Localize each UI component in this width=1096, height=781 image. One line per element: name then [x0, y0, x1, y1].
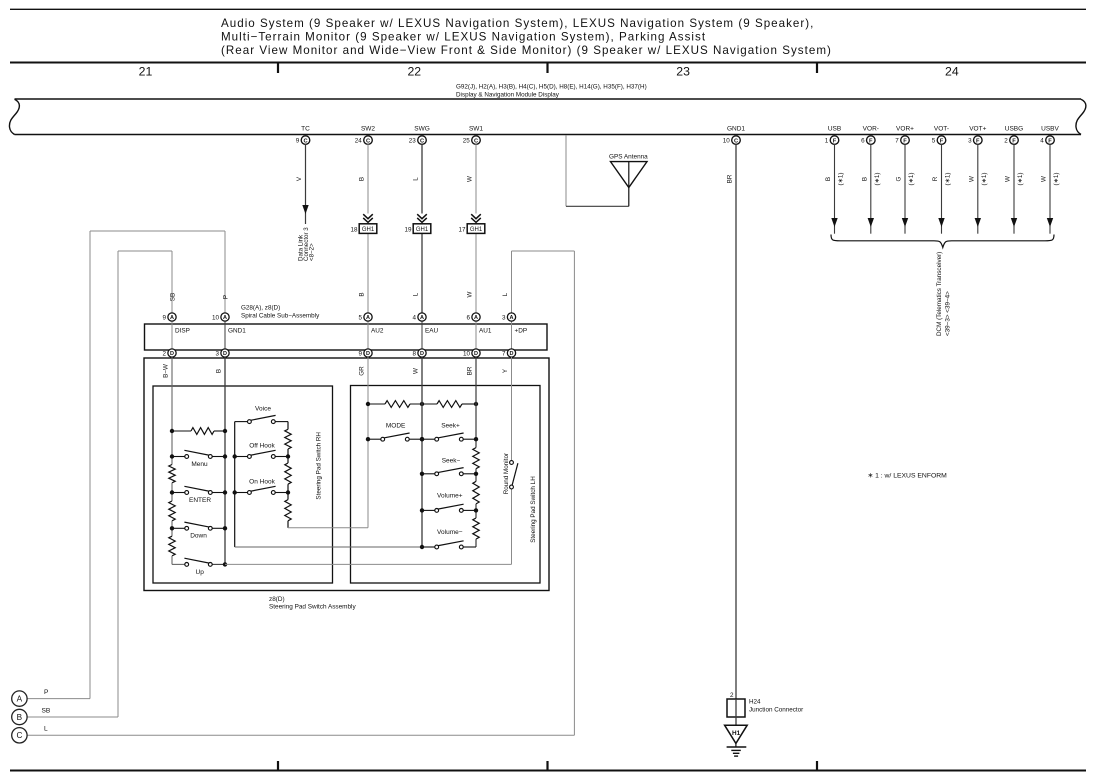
svg-text:TC: TC: [301, 126, 310, 133]
svg-text:D: D: [170, 351, 174, 357]
svg-text:1: 1: [825, 137, 829, 144]
svg-text:5: 5: [932, 137, 936, 144]
svg-text:G28(A), z8(D): G28(A), z8(D): [241, 305, 280, 312]
svg-text:B: B: [825, 177, 832, 181]
svg-text:7: 7: [502, 351, 506, 358]
svg-text:7: 7: [895, 137, 899, 144]
svg-text:(∗1): (∗1): [981, 173, 988, 186]
svg-text:Volume−: Volume−: [437, 529, 463, 536]
svg-text:P: P: [44, 689, 49, 696]
svg-text:C: C: [303, 138, 307, 144]
svg-text:18: 18: [350, 226, 358, 233]
svg-text:6: 6: [861, 137, 865, 144]
svg-text:9: 9: [162, 315, 166, 322]
svg-text:VOT-: VOT-: [934, 126, 949, 133]
svg-text:9: 9: [296, 137, 300, 144]
svg-text:A: A: [17, 695, 23, 704]
svg-text:B: B: [861, 177, 868, 181]
svg-text:L: L: [413, 292, 420, 296]
svg-text:L: L: [44, 726, 48, 733]
svg-text:H24: H24: [749, 699, 761, 706]
svg-text:B−W: B−W: [163, 364, 170, 378]
svg-text:L: L: [413, 177, 420, 181]
svg-text:5: 5: [358, 315, 362, 322]
svg-text:Off Hook: Off Hook: [249, 443, 275, 450]
svg-text:C: C: [366, 138, 370, 144]
svg-text:4: 4: [412, 315, 416, 322]
svg-text:6: 6: [466, 315, 470, 322]
svg-text:F: F: [903, 138, 907, 144]
svg-text:Steering Pad Switch Assembly: Steering Pad Switch Assembly: [269, 604, 356, 611]
svg-text:23: 23: [409, 137, 417, 144]
svg-text:W: W: [1005, 176, 1012, 182]
svg-text:VOR-: VOR-: [863, 126, 879, 133]
svg-text:23: 23: [676, 65, 690, 79]
svg-text:F: F: [940, 138, 944, 144]
svg-text:SB: SB: [42, 707, 51, 714]
svg-text:EAU: EAU: [425, 328, 439, 335]
svg-text:B: B: [17, 713, 23, 722]
svg-text:19: 19: [404, 226, 412, 233]
svg-text:GH1: GH1: [470, 227, 483, 233]
svg-text:G92(J), H2(A), H3(B), H4(C), H: G92(J), H2(A), H3(B), H4(C), H5(D), H8(E…: [456, 84, 647, 91]
svg-text:<39−3> <39−4>: <39−3> <39−4>: [945, 291, 952, 336]
svg-text:z8(D): z8(D): [269, 596, 285, 603]
svg-text:SW1: SW1: [469, 126, 483, 133]
svg-text:A: A: [223, 315, 227, 321]
svg-text:A: A: [420, 315, 424, 321]
svg-text:∗ 1 : w/ LEXUS ENFORM: ∗ 1 : w/ LEXUS ENFORM: [868, 473, 948, 480]
svg-text:B: B: [359, 177, 366, 181]
svg-text:D: D: [223, 351, 227, 357]
svg-text:GR: GR: [359, 366, 366, 376]
svg-text:F: F: [1012, 138, 1016, 144]
svg-text:GND1: GND1: [727, 126, 745, 133]
svg-text:3: 3: [502, 315, 506, 322]
svg-text:AU2: AU2: [371, 328, 384, 335]
svg-text:ENTER: ENTER: [189, 497, 211, 504]
svg-text:24: 24: [945, 65, 959, 79]
svg-text:DCM (Telematics Transceiver): DCM (Telematics Transceiver): [936, 252, 943, 336]
svg-text:G: G: [896, 176, 903, 181]
svg-text:+DP: +DP: [515, 328, 528, 335]
svg-text:10: 10: [212, 315, 220, 322]
svg-text:GH1: GH1: [362, 227, 375, 233]
svg-text:BR: BR: [727, 174, 734, 183]
svg-text:D: D: [420, 351, 424, 357]
svg-text:C: C: [16, 731, 22, 740]
svg-text:C: C: [734, 138, 738, 144]
svg-text:USBV: USBV: [1041, 126, 1059, 133]
svg-text:2: 2: [730, 692, 734, 699]
svg-text:GND1: GND1: [228, 328, 246, 335]
svg-text:USB: USB: [828, 126, 841, 133]
svg-text:D: D: [366, 351, 370, 357]
svg-text:USBG: USBG: [1005, 126, 1023, 133]
svg-text:Spiral Cable Sub−Assembly: Spiral Cable Sub−Assembly: [241, 313, 320, 320]
svg-text:Volume+: Volume+: [437, 492, 463, 499]
svg-text:9: 9: [358, 351, 362, 358]
svg-text:4: 4: [1040, 137, 1044, 144]
svg-text:Junction Connector: Junction Connector: [749, 706, 803, 713]
svg-text:R: R: [932, 176, 939, 181]
svg-text:Steering Pad Switch RH: Steering Pad Switch RH: [316, 432, 323, 500]
svg-text:(Rear View Monitor and Wide−Vi: (Rear View Monitor and Wide−View Front &…: [221, 44, 832, 57]
svg-text:Up: Up: [196, 569, 205, 576]
svg-text:D: D: [510, 351, 514, 357]
svg-text:W: W: [1041, 176, 1048, 182]
svg-text:Audio System (9 Speaker w/ LEX: Audio System (9 Speaker w/ LEXUS Navigat…: [221, 17, 814, 30]
svg-text:C: C: [420, 138, 424, 144]
svg-text:DISP: DISP: [175, 328, 190, 335]
svg-text:Seek−: Seek−: [442, 457, 461, 464]
svg-text:MODE: MODE: [386, 423, 406, 430]
svg-text:(∗1): (∗1): [874, 173, 881, 186]
svg-text:H1: H1: [732, 730, 741, 737]
svg-text:C: C: [474, 138, 478, 144]
svg-text:24: 24: [355, 137, 363, 144]
svg-text:Round Monitor: Round Monitor: [503, 453, 510, 494]
svg-text:A: A: [474, 315, 478, 321]
svg-text:L: L: [502, 292, 509, 296]
svg-text:GH1: GH1: [416, 227, 429, 233]
svg-text:25: 25: [463, 137, 471, 144]
svg-text:<8−2>: <8−2>: [309, 243, 316, 261]
svg-text:(∗1): (∗1): [1017, 173, 1024, 186]
svg-text:F: F: [1048, 138, 1052, 144]
svg-text:Voice: Voice: [255, 405, 271, 412]
svg-text:A: A: [366, 315, 370, 321]
svg-text:8: 8: [412, 351, 416, 358]
svg-text:W: W: [413, 368, 420, 374]
svg-text:(∗1): (∗1): [945, 173, 952, 186]
svg-text:BR: BR: [467, 366, 474, 375]
svg-text:2: 2: [1004, 137, 1008, 144]
svg-text:VOT+: VOT+: [969, 126, 986, 133]
svg-text:B: B: [359, 292, 366, 296]
svg-text:10: 10: [723, 137, 731, 144]
svg-text:AU1: AU1: [479, 328, 492, 335]
svg-text:W: W: [467, 176, 474, 182]
svg-text:Steering Pad Switch LH: Steering Pad Switch LH: [530, 476, 537, 543]
svg-text:GPS Antenna: GPS Antenna: [609, 153, 648, 160]
svg-text:F: F: [833, 138, 837, 144]
svg-text:Multi−Terrain Monitor (9 Speak: Multi−Terrain Monitor (9 Speaker w/ LEXU…: [221, 30, 706, 43]
svg-text:SWG: SWG: [414, 126, 430, 133]
svg-text:On Hook: On Hook: [249, 479, 275, 486]
svg-text:A: A: [510, 315, 514, 321]
svg-text:P: P: [223, 295, 230, 299]
svg-text:3: 3: [968, 137, 972, 144]
svg-text:SB: SB: [170, 293, 177, 301]
svg-text:10: 10: [463, 351, 471, 358]
svg-text:W: W: [467, 291, 474, 297]
svg-text:(∗1): (∗1): [1053, 173, 1060, 186]
svg-text:3: 3: [215, 351, 219, 358]
svg-text:Menu: Menu: [191, 461, 208, 468]
svg-text:21: 21: [139, 65, 153, 79]
svg-text:VOR+: VOR+: [896, 126, 914, 133]
svg-text:Seek+: Seek+: [441, 423, 460, 430]
svg-text:22: 22: [407, 65, 421, 79]
svg-text:A: A: [170, 315, 174, 321]
svg-text:(∗1): (∗1): [908, 173, 915, 186]
svg-text:Display & Navigation Module Di: Display & Navigation Module Display: [456, 92, 560, 99]
svg-text:F: F: [869, 138, 873, 144]
svg-text:B: B: [216, 369, 223, 373]
svg-text:(∗1): (∗1): [838, 173, 845, 186]
svg-text:W: W: [968, 176, 975, 182]
svg-text:SW2: SW2: [361, 126, 375, 133]
svg-text:D: D: [474, 351, 478, 357]
svg-text:F: F: [976, 138, 980, 144]
svg-text:Down: Down: [190, 533, 207, 540]
svg-text:2: 2: [162, 351, 166, 358]
svg-text:17: 17: [458, 226, 466, 233]
